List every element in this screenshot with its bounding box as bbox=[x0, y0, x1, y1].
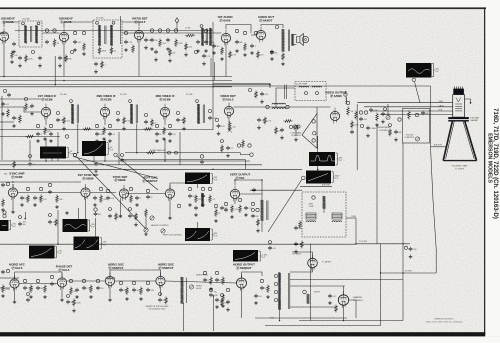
wire grid V6 bbox=[24, 107, 41, 112]
ground G60 bbox=[38, 64, 42, 68]
wire bus row1 c bbox=[0, 84, 270, 86]
ground G18 bbox=[12, 124, 16, 128]
coil yoke h2 bumps bbox=[332, 221, 342, 222]
wire V6 cath bbox=[45, 117, 47, 125]
wire x402 down bbox=[402, 143, 404, 321]
ground G16 speaker bbox=[281, 62, 285, 66]
value t4 bbox=[60, 94, 67, 96]
wire row4 link b bbox=[105, 277, 115, 279]
wire damper down bbox=[343, 305, 345, 320]
page border top bbox=[0, 7, 486, 9]
pot brightness bbox=[386, 115, 390, 119]
wire x430 vertical bbox=[430, 86, 432, 147]
capacitor C43 bbox=[106, 196, 115, 201]
resistor R13 bbox=[229, 51, 237, 59]
capacitor C107 vo bbox=[146, 195, 153, 200]
svg-text:TO YOKE: TO YOKE bbox=[359, 241, 368, 243]
wire crt drive 1 bbox=[357, 102, 452, 104]
capacitor C42 bbox=[93, 196, 97, 201]
ground G47 bbox=[215, 305, 219, 309]
wire V7 cath bbox=[104, 117, 106, 125]
capacitor C26 audio bbox=[270, 50, 278, 55]
ground G38 w bbox=[65, 211, 69, 215]
junction mid b bbox=[12, 181, 14, 183]
svg-text:21.25 MC: 21.25 MC bbox=[96, 18, 104, 20]
ring C17 bbox=[174, 29, 177, 32]
svg-text:.002: .002 bbox=[66, 121, 70, 123]
label 1st video IF bbox=[38, 94, 57, 101]
ground G49 fly bbox=[266, 295, 270, 299]
svg-text:B-BOOST: B-BOOST bbox=[434, 145, 443, 147]
wire yoke out bbox=[346, 217, 356, 219]
ground G10 bbox=[250, 51, 254, 55]
ring r2c2d bbox=[108, 124, 111, 127]
capacitor C56 bbox=[50, 282, 56, 287]
ground G2 bbox=[10, 60, 14, 64]
cap T5 trimmer bbox=[129, 100, 132, 103]
ground r2c2eg bbox=[108, 139, 112, 143]
ring r4c bbox=[36, 279, 39, 282]
ring vert osc c bbox=[146, 189, 149, 192]
capacitor r2c2e bbox=[108, 132, 115, 137]
wire hv tube bbox=[312, 252, 314, 258]
ground G11 bbox=[235, 49, 239, 53]
ground G75 bbox=[260, 100, 264, 104]
ring x18 bbox=[384, 108, 387, 111]
transformer T10 ratio a bbox=[201, 28, 204, 46]
label oscillator bbox=[132, 16, 148, 23]
capacitor C24 bbox=[212, 44, 219, 49]
wire x58 down bbox=[57, 210, 59, 244]
ground G39 bbox=[1, 294, 5, 298]
ring under W1 bbox=[412, 78, 415, 81]
margin title model list bbox=[492, 108, 498, 219]
resistor R28 focus bbox=[408, 111, 411, 120]
cap C1 in T1 bbox=[22, 22, 25, 25]
CRT funnel inner right bbox=[463, 122, 474, 159]
ring x26 bbox=[159, 293, 162, 296]
wire hv top bbox=[292, 251, 313, 253]
ground G57 bbox=[108, 298, 112, 302]
svg-text:470K: 470K bbox=[102, 51, 107, 53]
resistor R6 bbox=[132, 45, 135, 54]
capacitor C32 bbox=[359, 117, 367, 122]
svg-text:Ⓟ 6BH6: Ⓟ 6BH6 bbox=[82, 175, 93, 180]
waveform photo W10 bbox=[185, 173, 210, 185]
resistor R23 bbox=[242, 140, 245, 149]
wire v19 to v20 bbox=[166, 281, 237, 283]
CRT funnel inner left bbox=[446, 122, 455, 159]
ring vout b bbox=[238, 198, 241, 201]
ring C15 bbox=[166, 29, 169, 32]
wire x436 down bbox=[435, 249, 437, 273]
test point lead bbox=[176, 23, 178, 30]
waveform photo W8 bbox=[74, 237, 100, 251]
ground G44 bbox=[125, 297, 129, 301]
resistor R61 bbox=[123, 117, 131, 125]
ring r2c2a bbox=[95, 124, 98, 127]
speaker SP1 bbox=[297, 34, 309, 46]
ring x27 bbox=[67, 295, 70, 298]
ground G25 bbox=[20, 203, 24, 207]
svg-text:.005: .005 bbox=[363, 119, 367, 121]
capacitor C93 bbox=[350, 130, 354, 135]
wire stub v18 down bbox=[109, 286, 111, 298]
value t13 bbox=[405, 271, 413, 273]
coil T7b bbox=[312, 86, 322, 87]
ring r4f bbox=[82, 279, 85, 282]
capacitor C29 det bbox=[200, 160, 204, 165]
svg-text:100: 100 bbox=[14, 55, 17, 57]
capacitor C71 bbox=[252, 188, 256, 193]
wire det level bbox=[122, 159, 246, 161]
ground G55 bbox=[13, 300, 17, 304]
wire det level corner bbox=[245, 160, 247, 169]
caption line 1 bbox=[434, 319, 454, 321]
page border bottom thick bbox=[0, 332, 485, 336]
resistor R10 bbox=[185, 34, 195, 37]
ring R25 bbox=[346, 101, 349, 104]
ring r3a bbox=[6, 182, 9, 185]
resistor R74 bbox=[257, 219, 260, 227]
capacitor C47 bbox=[194, 206, 198, 211]
wire plate bus row1 bbox=[15, 30, 213, 32]
ground G50 bbox=[254, 301, 258, 305]
ring tri c bbox=[312, 139, 315, 142]
capacitor C92 bbox=[260, 92, 268, 97]
transformer T9 core b bbox=[289, 273, 291, 309]
tube V6 1st video IF bbox=[41, 104, 50, 120]
capacitor C77 bbox=[154, 50, 158, 55]
transformer T8 core a bbox=[266, 201, 268, 221]
transformer T10 ratio b bbox=[209, 28, 212, 46]
ground G6 bbox=[150, 47, 154, 51]
transformer T2 primary bbox=[98, 25, 101, 46]
junction d8 bbox=[261, 179, 263, 181]
transformer T2 core a bbox=[104, 26, 106, 45]
label width bbox=[314, 292, 321, 294]
capacitor C6 bbox=[45, 40, 49, 45]
svg-text:Ⓟ 6SN7GT: Ⓟ 6SN7GT bbox=[109, 265, 124, 270]
resistor R1 in T2 bbox=[98, 47, 107, 55]
transformer T1 core a bbox=[30, 26, 32, 42]
svg-text:22.3 MC: 22.3 MC bbox=[186, 94, 193, 96]
ground G30 bbox=[135, 203, 139, 207]
transformer T3 core b bbox=[289, 30, 291, 52]
bracket W12 bbox=[259, 251, 268, 261]
junction d12 bbox=[279, 320, 281, 322]
ring x5 bbox=[24, 97, 27, 100]
ring r4k bbox=[203, 271, 206, 274]
ring C12 bbox=[150, 29, 153, 32]
ring r3g bbox=[129, 187, 132, 190]
ring V5 grid bbox=[254, 31, 257, 34]
transformer T6 core a bbox=[202, 105, 204, 124]
ring r2c3a bbox=[155, 124, 158, 127]
box focus control bbox=[403, 109, 430, 144]
label vert output bbox=[230, 173, 251, 180]
ground G72 bbox=[94, 169, 98, 173]
capacitor C68 fly bbox=[254, 294, 261, 299]
wire b-boost down bbox=[431, 147, 437, 249]
wire stub x58r2 down bbox=[57, 132, 59, 161]
svg-text:.002: .002 bbox=[272, 248, 276, 250]
CRT neck bbox=[453, 95, 465, 118]
capacitor C48 bbox=[220, 206, 227, 211]
resistor R20 agc2 bbox=[26, 135, 35, 138]
ring r4m bbox=[209, 288, 212, 291]
ground G77 bbox=[394, 138, 398, 142]
junction row1 b bbox=[212, 86, 214, 88]
transformer T9 flyback bbox=[278, 273, 281, 310]
capacitor C57 bbox=[75, 288, 79, 293]
svg-text:220K: 220K bbox=[28, 59, 33, 61]
capacitor C96 bbox=[48, 220, 54, 225]
wire vert out link bbox=[240, 193, 262, 195]
pot vert hold bbox=[144, 228, 148, 232]
capacitor C30 det bbox=[217, 124, 226, 129]
resistor R38 bbox=[215, 209, 222, 218]
transformer T4 winding bbox=[71, 104, 74, 124]
transformer T4 core b bbox=[77, 105, 79, 124]
capacitor C8 bbox=[12, 42, 16, 47]
bracket W8 bbox=[100, 238, 107, 250]
svg-text:Ⓟ 6AL5: Ⓟ 6AL5 bbox=[12, 265, 23, 270]
note line 2 bbox=[148, 309, 166, 311]
capacitor C98 bbox=[108, 214, 112, 219]
capacitor C13 bbox=[150, 38, 158, 43]
wire sound takeoff bbox=[125, 152, 240, 154]
resistor R44 bbox=[44, 285, 47, 294]
bracket W7 bbox=[88, 220, 95, 231]
coil L2 peaking bbox=[272, 108, 286, 109]
ground G56 bbox=[60, 298, 64, 302]
ring fly d bbox=[274, 298, 277, 301]
ground r2c1eg bbox=[49, 139, 53, 143]
waveform photo W6 bbox=[0, 220, 9, 231]
ring x17 bbox=[389, 124, 392, 127]
resistor R53 damper bbox=[335, 305, 338, 313]
cap T7 trimmer b bbox=[316, 92, 319, 95]
ring r3d bbox=[48, 183, 51, 186]
resistor R12 bbox=[221, 47, 224, 56]
capacitor C66 bbox=[215, 298, 222, 303]
capacitor r2c2b bbox=[95, 132, 104, 137]
CRT grid lines bbox=[455, 104, 462, 111]
waveform photo W12 bbox=[233, 250, 258, 262]
leader W1 to video out bbox=[415, 82, 421, 103]
wire bus row3 bottom bbox=[0, 243, 356, 245]
ring R23 bbox=[237, 144, 240, 147]
ground G4 bbox=[82, 52, 86, 56]
capacitor C16 bbox=[166, 38, 170, 43]
tube V5 audio output bbox=[256, 27, 265, 43]
bracket W3 bbox=[107, 143, 114, 155]
tube V15 vert output bbox=[230, 186, 239, 202]
ring x25 bbox=[221, 294, 224, 297]
cap C3 in T2 bbox=[96, 21, 99, 24]
pot height bbox=[150, 216, 154, 220]
ground G35 bbox=[214, 219, 218, 223]
ring vout c bbox=[251, 202, 254, 205]
transformer T2 core b bbox=[105, 26, 107, 45]
capacitor C11 bbox=[124, 40, 133, 45]
capacitor C37 focus bbox=[421, 111, 429, 116]
resistor R71 bbox=[55, 219, 58, 227]
ground G17 edge bbox=[1, 112, 5, 116]
caption part no bbox=[0, 0, 1, 1]
resistor R27 bbox=[376, 113, 379, 122]
ground G52 right bbox=[409, 255, 413, 259]
capacitor C63 bbox=[203, 278, 209, 283]
resistor R49 bbox=[210, 277, 213, 286]
label height bbox=[151, 225, 170, 227]
svg-text:.1: .1 bbox=[254, 46, 256, 48]
ground G32 bbox=[188, 203, 192, 207]
ring r4i bbox=[132, 281, 135, 284]
pot R22 arrow bbox=[228, 128, 232, 132]
svg-text:.01: .01 bbox=[112, 134, 115, 136]
ground r2c2g bbox=[95, 139, 99, 143]
ground G46 bbox=[209, 287, 213, 291]
junction mid c bbox=[212, 169, 214, 171]
resistor R42 bbox=[2, 285, 11, 294]
label horiz freq 2 bbox=[196, 285, 203, 287]
ring fly a bbox=[274, 274, 277, 277]
svg-text:470K: 470K bbox=[76, 303, 81, 305]
ring x4 bbox=[3, 89, 6, 92]
ring x23 bbox=[252, 209, 255, 212]
ring r4b bbox=[23, 279, 26, 282]
svg-text:Ⓟ 6SN7GT: Ⓟ 6SN7GT bbox=[143, 178, 158, 183]
ring ratio det t a bbox=[200, 25, 203, 28]
svg-text:25.2 MC: 25.2 MC bbox=[120, 94, 127, 96]
caption line 2 bbox=[426, 321, 463, 323]
wire y83 right bbox=[213, 82, 270, 84]
value t7 bbox=[296, 83, 308, 86]
ring x13 bbox=[121, 154, 124, 157]
wire V5 plate bbox=[261, 25, 283, 29]
label crt pin 1 bbox=[439, 101, 444, 103]
wire v15 plate bbox=[234, 180, 236, 185]
ground G33 bbox=[201, 203, 205, 207]
wire stub v6 down bbox=[45, 139, 47, 161]
ground G27 bbox=[55, 205, 59, 209]
ring R5r bbox=[82, 31, 85, 34]
resistor R59 bbox=[25, 103, 32, 112]
ring mid pair a bbox=[293, 125, 296, 128]
capacitor C62 bbox=[146, 288, 155, 293]
CRT base cap bbox=[453, 89, 464, 95]
svg-text:EMERSON MODELS: EMERSON MODELS bbox=[434, 319, 454, 321]
leader diag C bbox=[117, 156, 158, 190]
capacitor C27 edge bbox=[1, 102, 9, 107]
note line 1 bbox=[146, 306, 169, 308]
resistor R72 bbox=[115, 213, 123, 221]
resistor R14 bbox=[257, 51, 264, 59]
ground r2c1g bbox=[36, 139, 40, 143]
transformer T2 secondary bbox=[110, 25, 113, 46]
wire row4 bus bbox=[255, 317, 347, 319]
wire row3 link bbox=[18, 192, 81, 194]
bracket W2 bbox=[67, 148, 74, 158]
ring yoke a bbox=[312, 196, 315, 199]
ring x19 bbox=[49, 214, 52, 217]
capacitor C40 bbox=[33, 196, 42, 201]
wire stub v13 down bbox=[120, 198, 122, 214]
transformer T8 vert output bbox=[261, 200, 264, 221]
ring above W6b bbox=[3, 211, 6, 214]
tube V10 video output bbox=[330, 108, 339, 124]
junction d11 bbox=[213, 295, 215, 297]
capacitor C80 bbox=[30, 104, 34, 109]
wire trap down bbox=[275, 88, 277, 107]
capacitor r2c1b bbox=[36, 132, 42, 137]
resistor R4 bbox=[11, 51, 18, 60]
resistor R26 vid bbox=[355, 111, 358, 120]
label damper bbox=[353, 296, 362, 299]
resistor R54 bbox=[185, 43, 192, 51]
ground G3 bbox=[73, 48, 77, 52]
capacitor C59 bbox=[96, 286, 103, 291]
svg-text:21.25 MC: 21.25 MC bbox=[22, 19, 30, 21]
waveform photo W7 bbox=[63, 219, 88, 232]
ring above W6 bbox=[3, 214, 6, 217]
resistor R30 bbox=[27, 195, 30, 204]
capacitor C60 bbox=[119, 288, 127, 293]
ring fly c bbox=[274, 290, 277, 293]
resistor R70 bbox=[389, 129, 392, 137]
capacitor C101 bbox=[268, 246, 276, 251]
ring peak a bbox=[266, 105, 269, 108]
wire cage bottom 1 bbox=[299, 320, 403, 322]
transformer T4 core a bbox=[76, 105, 78, 124]
wire W4 up bbox=[317, 136, 319, 152]
ground r2c1cg bbox=[43, 137, 47, 141]
capacitor C38 bbox=[1, 183, 7, 188]
ring vo e bbox=[214, 204, 218, 208]
resistor R45 bbox=[70, 287, 77, 296]
ground G76 bbox=[366, 134, 370, 138]
junction W6 feed bbox=[25, 218, 27, 220]
resistor R24 contrast bbox=[284, 120, 293, 123]
ring leader a bbox=[73, 153, 76, 156]
svg-text:560: 560 bbox=[22, 224, 25, 226]
wire v18 plate bbox=[110, 270, 161, 276]
ring vo b bbox=[188, 187, 191, 190]
svg-text:VERT LIN CONTROL: VERT LIN CONTROL bbox=[163, 234, 183, 236]
resistor R41 yoke bbox=[299, 221, 302, 230]
label yoke 2 bbox=[309, 206, 315, 208]
svg-text:Ⓟ 6S4: Ⓟ 6S4 bbox=[236, 175, 245, 180]
svg-text:27: 27 bbox=[154, 123, 156, 125]
ring C31 bbox=[359, 111, 362, 114]
value t9 bbox=[4, 174, 7, 176]
bracket W11 bbox=[211, 229, 218, 240]
wire v15 plate h bbox=[235, 179, 262, 181]
wire row4 in a bbox=[0, 277, 10, 279]
ring L3 peaking bbox=[344, 93, 347, 96]
transformer T8 core b bbox=[267, 201, 269, 221]
label 3rd video IF bbox=[156, 94, 175, 101]
svg-text:27: 27 bbox=[139, 198, 141, 200]
resistor R47 bbox=[126, 287, 129, 296]
CRT heater bbox=[456, 98, 461, 103]
value t6 bbox=[186, 94, 193, 96]
svg-text:.005: .005 bbox=[298, 228, 302, 230]
wire T8 bot bbox=[261, 220, 263, 232]
resistor R69 bbox=[351, 121, 360, 129]
